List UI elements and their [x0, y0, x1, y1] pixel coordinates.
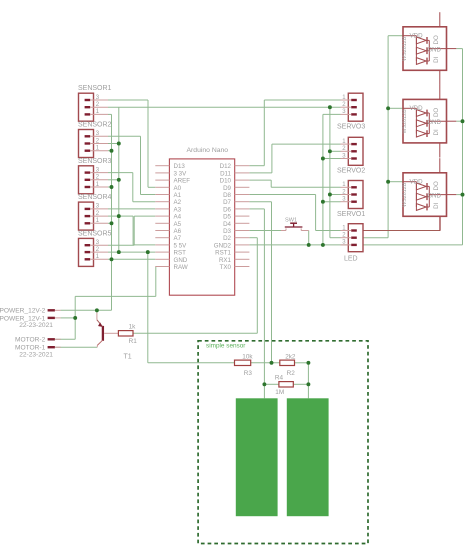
junction (330,194) — [328, 193, 332, 197]
wire servo GND bus — [323, 114, 341, 245]
svg-text:D8: D8 — [223, 192, 231, 199]
junction (323,202) — [321, 200, 325, 204]
svg-text:A3: A3 — [174, 206, 182, 213]
svg-text:SENSOR1: SENSOR1 — [78, 85, 112, 92]
svg-text:A4: A4 — [174, 214, 182, 221]
connector SENSOR5 — [78, 230, 112, 266]
svg-text:1M: 1M — [275, 389, 284, 396]
junction (75,318) — [73, 316, 77, 320]
wire S2P1 tap — [108, 150, 112, 152]
junction (309,245) — [307, 243, 311, 247]
wire R3 right — [251, 362, 280, 364]
wire MOTOR-1 collector — [55, 346, 97, 348]
junction (119,144) — [117, 142, 121, 146]
junction (330,107) — [328, 105, 332, 109]
wire D10 to SERVO1P1 — [249, 180, 340, 187]
svg-text:D10: D10 — [220, 178, 232, 185]
wire S4P3-A3 — [108, 208, 155, 210]
svg-text:DO: DO — [433, 108, 440, 117]
connector SENSOR2 — [78, 122, 112, 158]
capacitive plate right — [287, 398, 329, 516]
svg-text:A6: A6 — [174, 228, 182, 235]
svg-text:Arduino Nano: Arduino Nano — [187, 147, 229, 154]
wire POWER_12V-1 net — [55, 296, 75, 339]
svg-text:D12: D12 — [220, 163, 232, 170]
svg-text:A7: A7 — [174, 235, 182, 242]
junction (388,182) — [386, 180, 390, 184]
wire SERVO1P3 tap — [323, 201, 341, 203]
wire bus jog to 5V pin — [119, 216, 156, 245]
svg-text:RST: RST — [174, 250, 187, 257]
wire D3 to SW1 — [249, 230, 281, 232]
svg-text:22-23-2021: 22-23-2021 — [19, 351, 53, 358]
svg-text:SENSOR2: SENSOR2 — [78, 122, 112, 129]
svg-text:D4: D4 — [223, 221, 231, 228]
svg-text:VDD: VDD — [410, 105, 424, 112]
junction (323,245) — [321, 243, 325, 247]
wire emitter link — [96, 310, 98, 313]
wire left plate drop — [263, 384, 265, 398]
junction (272,363) — [270, 361, 274, 365]
wire RST row — [108, 251, 155, 253]
wire RST to R3 — [148, 252, 235, 363]
wire R2 right — [295, 362, 309, 364]
svg-text:R4: R4 — [275, 374, 284, 381]
wire GND2 row — [249, 244, 462, 246]
wire SERVO2P3 tap — [323, 158, 341, 160]
resistor R3 10k — [235, 353, 254, 377]
wire S4P2 tap — [108, 215, 119, 217]
wire IC VDD bus — [363, 36, 403, 238]
svg-text:RST1: RST1 — [215, 250, 231, 257]
wire R4 left — [264, 383, 279, 385]
wire POWER_12V-2 net — [61, 309, 112, 311]
svg-text:2k2: 2k2 — [285, 353, 296, 360]
svg-text:A1: A1 — [174, 192, 182, 199]
wire servo 5V bus — [330, 107, 341, 238]
svg-text:SERVO3: SERVO3 — [337, 124, 365, 131]
resistor R4 1M — [275, 374, 293, 396]
junction (119,216) — [117, 214, 121, 218]
wire SERVO2P2 tap — [330, 150, 341, 152]
svg-text:1k: 1k — [129, 323, 137, 330]
junction (112,187) — [110, 185, 114, 189]
junction (308,384) — [306, 382, 310, 386]
connector SERVO1 — [337, 181, 365, 218]
junction (119,180) — [117, 178, 121, 182]
pin POWER_12V-2 — [0, 308, 61, 315]
junction (388,108) — [386, 106, 390, 110]
wire S3P2 tap — [108, 179, 119, 181]
wire R2 to plate — [307, 363, 309, 399]
switch SW1 — [281, 218, 309, 231]
junction (330,151) — [328, 149, 332, 153]
svg-text:GND: GND — [427, 192, 441, 199]
resistor R2 2k2 — [280, 353, 296, 377]
wire IC3 GND tap — [456, 194, 462, 196]
wire D8 to LED P1 — [249, 195, 340, 231]
svg-text:RX1: RX1 — [219, 257, 232, 264]
wire D12 to SERVO3P1 — [249, 100, 340, 166]
junction (462,195) — [461, 193, 465, 197]
svg-text:D9: D9 — [223, 185, 231, 192]
svg-text:POWER_12V-2: POWER_12V-2 — [0, 308, 46, 315]
svg-text:10k: 10k — [242, 353, 253, 360]
svg-text:DO: DO — [433, 181, 440, 190]
wire IC3 DI to LED — [364, 216, 441, 230]
connector SERVO2 — [337, 137, 365, 174]
wire S4P1 tap — [108, 222, 112, 224]
junction (264,384) — [262, 382, 266, 386]
wire GND row — [108, 258, 155, 260]
svg-text:MOTOR-2: MOTOR-2 — [15, 337, 46, 344]
dashed box simple sensor — [198, 341, 368, 544]
svg-text:A0: A0 — [174, 185, 182, 192]
ic LED1 WS2812B — [402, 12, 456, 85]
wire SERVO1P2 tap — [330, 194, 341, 196]
svg-text:T1: T1 — [124, 354, 132, 361]
svg-text:D2: D2 — [223, 235, 231, 242]
svg-text:TX0: TX0 — [220, 264, 232, 271]
wire D7 to R2R3 node — [249, 202, 271, 363]
wire IC2 VDD tap — [388, 107, 403, 109]
pin MOTOR-1 — [15, 345, 61, 359]
wire R1 to D2 — [133, 238, 257, 334]
ic U1 Arduino Nano — [155, 147, 249, 295]
svg-text:WS2812B: WS2812B — [402, 36, 408, 61]
ic LED3 WS2812B — [402, 158, 456, 231]
wire IC3 VDD tap — [388, 181, 403, 183]
svg-text:GND2: GND2 — [214, 242, 232, 249]
svg-text:D13: D13 — [174, 163, 186, 170]
transistor T1 — [97, 313, 132, 361]
svg-text:DO: DO — [433, 35, 440, 44]
svg-text:AREF: AREF — [174, 178, 191, 185]
svg-text:D6: D6 — [223, 206, 231, 213]
junction (112,259) — [110, 257, 114, 261]
svg-text:D3: D3 — [223, 228, 231, 235]
connector LED — [341, 224, 364, 263]
wire S5P3-A4 — [108, 216, 155, 245]
svg-text:WS2812B: WS2812B — [402, 109, 408, 134]
svg-text:GND: GND — [427, 46, 441, 53]
svg-text:GND: GND — [174, 257, 188, 264]
svg-text:simple sensor: simple sensor — [206, 343, 246, 350]
svg-text:SERVO1: SERVO1 — [337, 211, 365, 218]
svg-text:5 5V: 5 5V — [174, 242, 188, 249]
svg-text:A2: A2 — [174, 199, 182, 206]
connector SERVO3 — [337, 93, 365, 130]
wire S2P2 tap — [108, 143, 119, 145]
svg-text:DI: DI — [433, 129, 440, 135]
wire S3P1 tap — [108, 186, 112, 188]
svg-text:WS2812B: WS2812B — [402, 182, 408, 207]
svg-text:DI: DI — [433, 56, 440, 62]
svg-text:D11: D11 — [220, 170, 231, 177]
wire S1P3-A0 — [108, 100, 155, 187]
wire IC GND bus — [456, 49, 462, 245]
ic LED2 WS2812B — [402, 85, 456, 158]
svg-text:SENSOR4: SENSOR4 — [78, 194, 112, 201]
pin MOTOR-2 — [15, 337, 61, 344]
wire S1P1 tap — [108, 113, 112, 115]
svg-text:VDD: VDD — [410, 32, 424, 39]
svg-text:VDD: VDD — [410, 178, 424, 185]
svg-text:A5: A5 — [174, 221, 182, 228]
connector SENSOR4 — [78, 194, 112, 230]
svg-text:RAW: RAW — [174, 264, 188, 271]
junction (148,252) — [146, 250, 150, 254]
wire bus pin2 — [118, 107, 120, 252]
wire S2P3-A1 — [108, 136, 155, 194]
svg-text:3 3V: 3 3V — [174, 170, 188, 177]
svg-text:LED: LED — [344, 255, 358, 262]
wire IC2 GND tap — [456, 120, 462, 122]
svg-text:DI: DI — [433, 202, 440, 208]
connector SENSOR1 — [78, 85, 112, 121]
svg-text:D5: D5 — [223, 214, 231, 221]
junction (119,252) — [117, 250, 121, 254]
junction (462,121) — [461, 119, 465, 123]
svg-text:22-23-2021: 22-23-2021 — [19, 322, 53, 329]
resistor R1 1k — [118, 323, 137, 345]
pin POWER_12V-1 — [0, 315, 61, 329]
wire 5V row S1P2-SERVO3P2 — [108, 106, 341, 108]
wire D11 to SERVO2P1 — [249, 144, 340, 173]
svg-text:R2: R2 — [287, 370, 296, 377]
svg-text:R3: R3 — [244, 370, 253, 377]
wire RAW to 12V — [75, 267, 156, 297]
connector SENSOR3 — [78, 158, 112, 194]
wire SW1 to GND — [308, 231, 310, 245]
svg-text:SENSOR5: SENSOR5 — [78, 230, 112, 237]
svg-text:SENSOR3: SENSOR3 — [78, 158, 112, 165]
wire D6 to R4 node — [249, 209, 264, 384]
junction (112,223) — [110, 221, 114, 225]
capacitive plate left — [236, 398, 278, 516]
junction (323,158) — [321, 157, 325, 161]
wire R4 right — [293, 383, 308, 385]
svg-text:GND: GND — [427, 119, 441, 126]
wire S3P3-A2 — [108, 173, 155, 202]
svg-text:R1: R1 — [129, 338, 138, 345]
junction (308,363) — [306, 361, 310, 365]
svg-text:SERVO2: SERVO2 — [337, 168, 365, 175]
junction (97,310) — [95, 308, 99, 312]
svg-text:D7: D7 — [223, 199, 231, 206]
wire bus pin1 — [111, 114, 113, 310]
junction (112,151) — [110, 149, 114, 153]
